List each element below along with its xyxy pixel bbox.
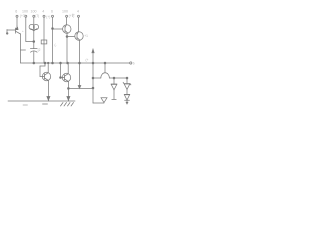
svg-text:(+: (+ bbox=[86, 58, 89, 62]
svg-text:+: + bbox=[22, 29, 24, 33]
svg-text:100: 100 bbox=[62, 9, 68, 13]
svg-text:100: 100 bbox=[31, 9, 37, 13]
svg-text:b: b bbox=[133, 62, 135, 66]
svg-text:6: 6 bbox=[51, 10, 53, 14]
svg-text:100: 100 bbox=[22, 9, 28, 13]
svg-text:(+): (+) bbox=[46, 15, 50, 19]
svg-text:4: 4 bbox=[77, 10, 79, 14]
svg-text:4: 4 bbox=[42, 10, 44, 14]
svg-text:(+: (+ bbox=[72, 13, 75, 17]
svg-text:(2: (2 bbox=[38, 48, 41, 52]
svg-text:+1: +1 bbox=[84, 34, 88, 38]
svg-text:6: 6 bbox=[15, 10, 17, 14]
svg-text:(7): (7) bbox=[35, 14, 39, 18]
svg-text:(-: (- bbox=[55, 43, 57, 47]
svg-text:(+7): (+7) bbox=[20, 14, 26, 18]
